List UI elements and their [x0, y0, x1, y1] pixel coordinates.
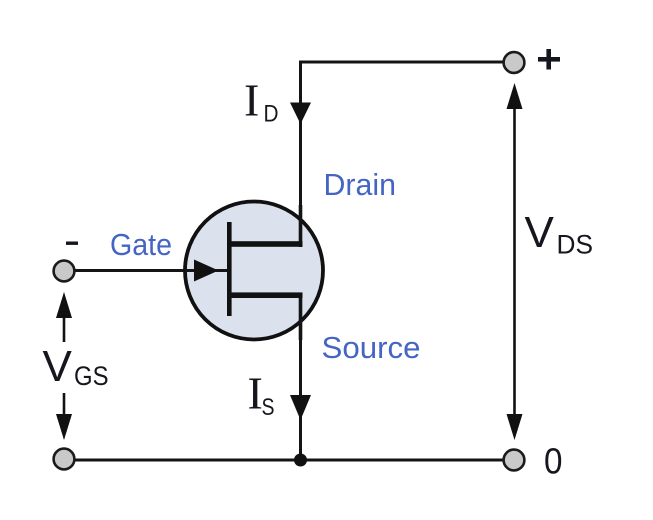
svg-text:Drain: Drain — [324, 167, 397, 202]
svg-text:Source: Source — [322, 330, 421, 365]
svg-text:DS: DS — [557, 230, 594, 260]
svg-text:V: V — [43, 342, 73, 391]
svg-text:S: S — [262, 394, 275, 421]
svg-text:D: D — [264, 101, 279, 128]
svg-text:I: I — [244, 75, 259, 126]
svg-text:GS: GS — [74, 361, 109, 391]
svg-text:0: 0 — [544, 441, 563, 482]
svg-text:Gate: Gate — [110, 227, 172, 262]
svg-text:V: V — [525, 208, 555, 257]
